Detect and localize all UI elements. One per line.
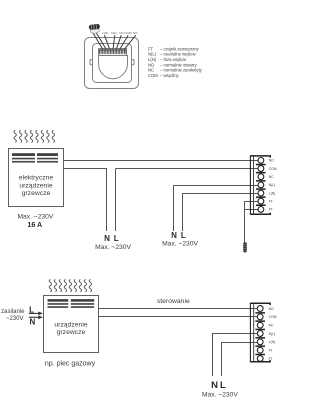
svg-text:FT: FT bbox=[148, 46, 154, 51]
svg-text:COM: COM bbox=[148, 73, 158, 78]
svg-text:– czujnik zewnętrzny: – czujnik zewnętrzny bbox=[160, 46, 200, 51]
svg-text:NO: NO bbox=[133, 31, 138, 35]
svg-text:N(L): N(L) bbox=[269, 183, 276, 187]
svg-text:NO: NO bbox=[148, 62, 155, 67]
svg-text:elektryczne: elektryczne bbox=[19, 175, 54, 182]
svg-text:Max. ~230V: Max. ~230V bbox=[202, 391, 238, 398]
svg-text:16 A: 16 A bbox=[27, 220, 42, 229]
svg-text:N(L): N(L) bbox=[111, 31, 117, 35]
svg-text:L: L bbox=[220, 380, 226, 391]
svg-text:~230V: ~230V bbox=[6, 316, 24, 322]
svg-text:grzewcze: grzewcze bbox=[22, 190, 51, 197]
svg-text:NC: NC bbox=[148, 68, 154, 73]
svg-text:L(N): L(N) bbox=[148, 57, 157, 62]
svg-text:N: N bbox=[30, 318, 36, 327]
svg-text:– wspólny: – wspólny bbox=[160, 73, 180, 78]
svg-text:N: N bbox=[171, 231, 177, 240]
svg-text:N: N bbox=[104, 234, 110, 243]
svg-text:urządzenie: urządzenie bbox=[19, 182, 52, 189]
svg-text:– normalnie otwarty: – normalnie otwarty bbox=[160, 62, 197, 67]
svg-text:NO: NO bbox=[269, 307, 274, 311]
svg-text:zasilanie: zasilanie bbox=[1, 309, 25, 315]
svg-text:NC: NC bbox=[269, 324, 274, 328]
svg-text:L: L bbox=[181, 231, 186, 240]
svg-text:L: L bbox=[114, 234, 119, 243]
svg-text:NC: NC bbox=[269, 175, 274, 179]
svg-text:Max. ~230V: Max. ~230V bbox=[162, 241, 198, 248]
svg-text:FT: FT bbox=[269, 357, 273, 361]
svg-text:FT: FT bbox=[269, 208, 273, 212]
svg-text:L(N): L(N) bbox=[102, 31, 108, 35]
svg-text:COM: COM bbox=[269, 315, 277, 319]
svg-text:– neutralne wejście: – neutralne wejście bbox=[160, 52, 197, 57]
svg-text:sterowanie: sterowanie bbox=[157, 298, 190, 305]
svg-text:Max. ~230V: Max. ~230V bbox=[95, 244, 131, 251]
svg-text:– faza wejście: – faza wejście bbox=[160, 57, 187, 62]
svg-text:grzewcze: grzewcze bbox=[57, 329, 86, 336]
svg-text:N: N bbox=[211, 380, 218, 391]
svg-text:L(N): L(N) bbox=[269, 191, 276, 195]
svg-text:N(L): N(L) bbox=[148, 52, 157, 57]
svg-text:COM: COM bbox=[269, 167, 277, 171]
svg-text:L(N): L(N) bbox=[269, 340, 276, 344]
svg-text:N(L): N(L) bbox=[269, 332, 276, 336]
svg-text:np. piec gazowy: np. piec gazowy bbox=[45, 360, 96, 367]
svg-text:urządzenie: urządzenie bbox=[54, 321, 87, 328]
svg-text:NO: NO bbox=[269, 159, 274, 163]
svg-text:– normalnie zamknięty: – normalnie zamknięty bbox=[160, 68, 203, 73]
svg-text:COM: COM bbox=[124, 31, 132, 35]
svg-text:FT: FT bbox=[269, 349, 273, 353]
svg-text:FT: FT bbox=[269, 200, 273, 204]
